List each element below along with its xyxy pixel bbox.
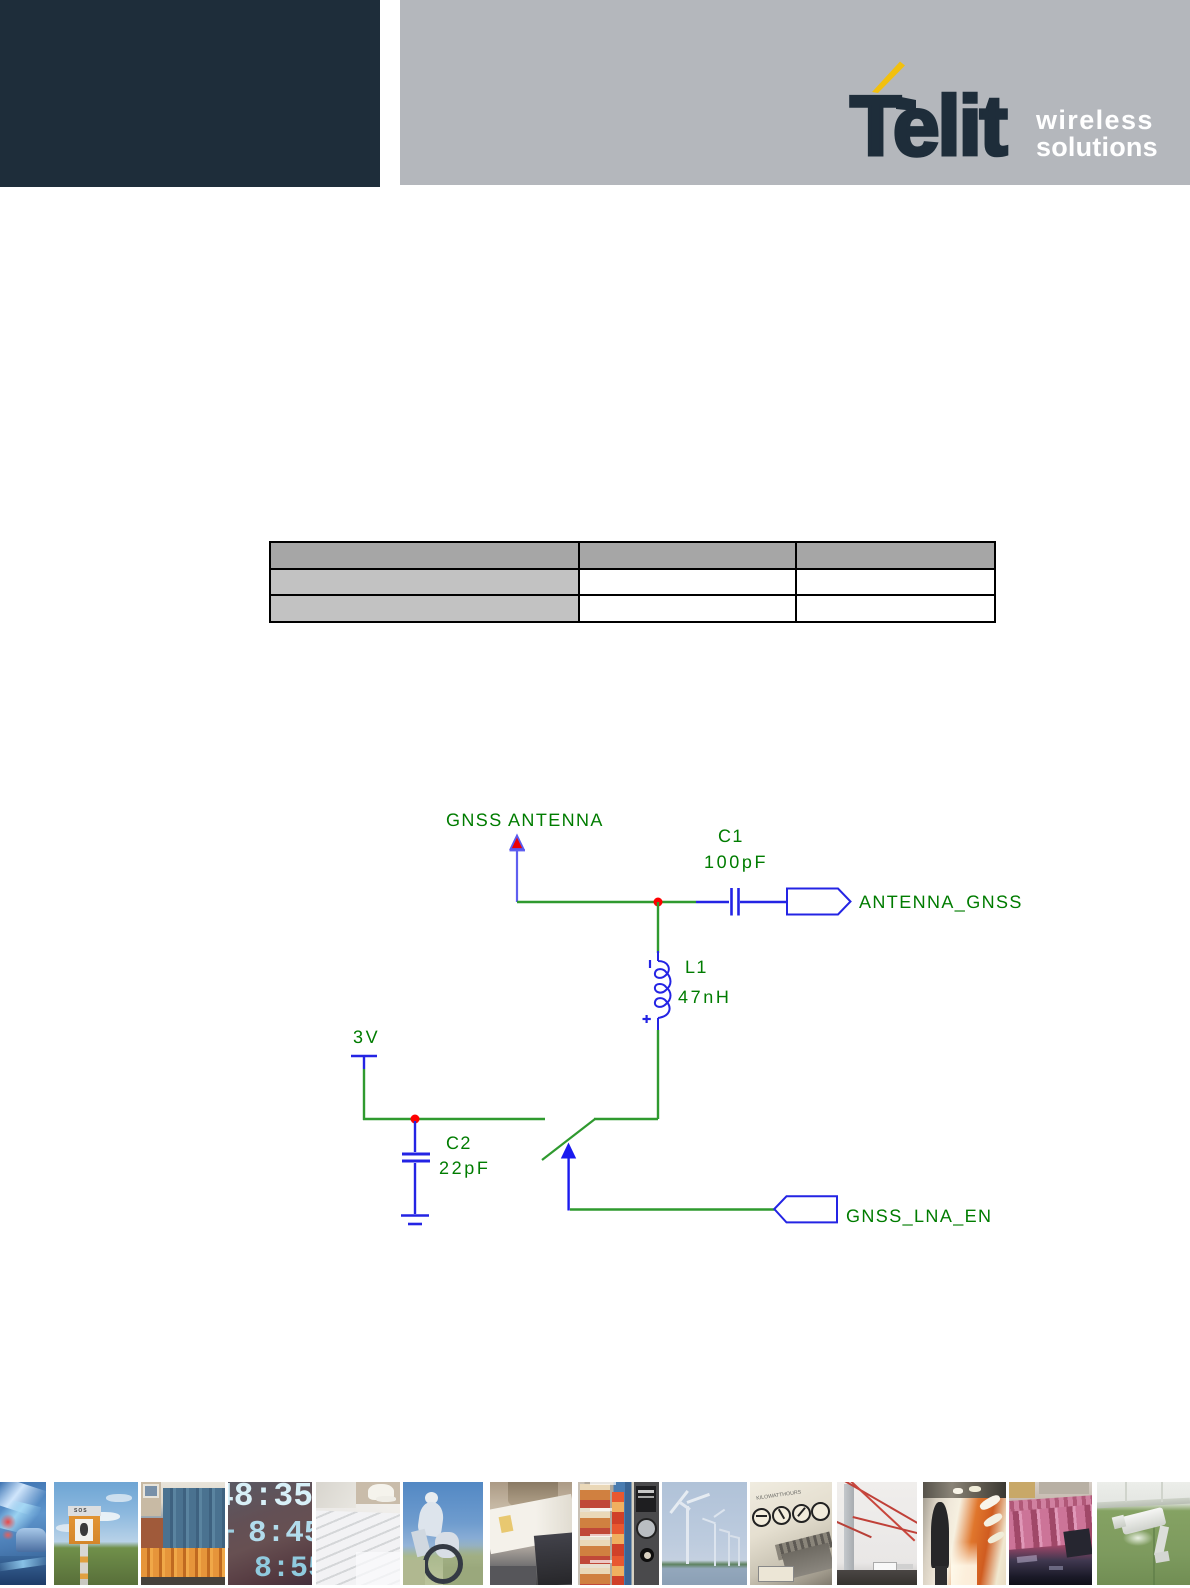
svg-text:ANTENNA_GNSS: ANTENNA_GNSS <box>859 892 1023 912</box>
header dark navy block <box>0 0 380 187</box>
control arrow (gate) <box>561 1143 576 1211</box>
wire: 3V horizontal to switch contact <box>363 1118 545 1120</box>
photo tile: containers <box>141 1482 225 1585</box>
C1 reference label <box>718 826 744 846</box>
wire: gate control horizontal <box>570 1208 775 1210</box>
capacitor C2 <box>402 1121 430 1214</box>
svg-text:GNSS ANTENNA: GNSS ANTENNA <box>446 810 604 830</box>
wire: 3V down <box>363 1069 365 1120</box>
inductor L1 <box>655 951 671 1030</box>
antenna port arrow (GNSS ANTENNA) <box>510 836 526 903</box>
logo T bar angled end <box>896 96 916 111</box>
photo tile: bridge <box>837 1482 917 1585</box>
port connector GNSS_LNA_EN <box>774 1196 837 1222</box>
wire: switch to L1 branch <box>594 1118 658 1120</box>
L1 polarity plus mark <box>643 1015 651 1023</box>
svg-text:C1: C1 <box>718 826 744 846</box>
C2 reference label <box>446 1133 472 1153</box>
photo tile: wind turbines <box>662 1482 747 1585</box>
wire: junction down to L1 <box>657 902 659 953</box>
svg-text:GNSS_LNA_EN: GNSS_LNA_EN <box>846 1206 992 1226</box>
photo tile: card reader <box>490 1482 572 1585</box>
wire: antenna node horizontal <box>517 901 696 903</box>
power symbol 3V <box>351 1056 377 1069</box>
photo tile: security camera <box>1097 1482 1190 1585</box>
header gray block <box>400 0 1190 185</box>
ground symbol <box>401 1216 429 1225</box>
C1 value label 100pF <box>704 852 768 872</box>
empty parameters table <box>269 541 996 621</box>
photo tile: electricity meter <box>750 1482 832 1585</box>
photo tile: digital clock <box>228 1482 312 1585</box>
capacitor C1 <box>696 888 787 916</box>
svg-text:22pF: 22pF <box>439 1158 490 1178</box>
logo yellow slash <box>872 62 905 94</box>
photo tile: subway train <box>923 1482 1006 1585</box>
3V label <box>353 1027 380 1047</box>
Telit logo <box>0 0 1190 250</box>
C2 value label 22pF <box>439 1158 490 1178</box>
net label GNSS_LNA_EN <box>846 1206 992 1226</box>
port connector ANTENNA_GNSS <box>787 889 851 915</box>
junction node (3V / C2) <box>411 1115 420 1124</box>
wire: L1 down to switch <box>657 1030 659 1119</box>
svg-text:100pF: 100pF <box>704 852 768 872</box>
net label ANTENNA_GNSS <box>859 892 1023 912</box>
footer photo film strip <box>0 1482 1190 1585</box>
photo tile: cyclist <box>403 1482 483 1585</box>
node label GNSS ANTENNA <box>446 810 604 830</box>
svg-text:L1: L1 <box>685 957 708 977</box>
photo tile: SOS phone <box>54 1482 138 1585</box>
svg-text:3V: 3V <box>353 1027 380 1047</box>
L1 polarity minus mark <box>649 960 651 968</box>
svg-text:C2: C2 <box>446 1133 472 1153</box>
L1 value label 47nH <box>678 987 731 1007</box>
svg-text:47nH: 47nH <box>678 987 731 1007</box>
L1 reference label <box>685 957 708 977</box>
junction node (antenna / L1 / C1) <box>654 898 663 907</box>
photo tile: conveyor <box>1009 1482 1092 1585</box>
photo tile: vending machine <box>578 1482 659 1585</box>
switch blade (LNA enable switch) <box>542 1119 595 1160</box>
photo tile: laptop keyboard <box>316 1482 400 1585</box>
photo tile: night traffic <box>0 1482 46 1585</box>
